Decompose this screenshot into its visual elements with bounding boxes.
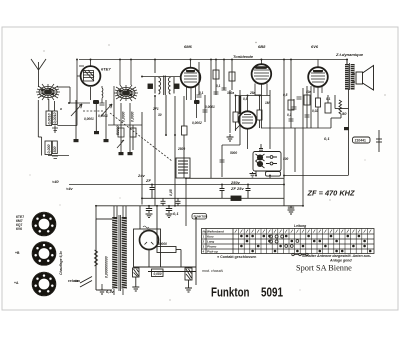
svg-text:6B8: 6B8 <box>258 44 266 49</box>
svg-text:2500: 2500 <box>177 147 185 151</box>
svg-text:ZF1: ZF1 <box>152 107 159 111</box>
svg-text:0,0000: 0,0000 <box>122 112 126 122</box>
svg-text:Z.t.dynamique: Z.t.dynamique <box>335 52 364 57</box>
svg-text:Schalter Antenne dargestellt.: Schalter Antenne dargestellt. Anten aus- <box>302 254 372 258</box>
svg-text:0,1: 0,1 <box>287 113 292 117</box>
svg-text:Sport SA Bienne: Sport SA Bienne <box>296 264 352 273</box>
svg-text:0,050: 0,050 <box>154 272 162 276</box>
svg-text:≈4v: ≈4v <box>66 186 73 191</box>
svg-text:6TE7: 6TE7 <box>101 67 111 72</box>
svg-text:500: 500 <box>283 157 289 161</box>
svg-text:ZF = 470 KHZ: ZF = 470 KHZ <box>307 189 356 198</box>
svg-text:0,1: 0,1 <box>216 84 221 88</box>
svg-text:ZF: ZF <box>145 178 151 183</box>
svg-text:≈40: ≈40 <box>52 179 59 184</box>
svg-text:5091: 5091 <box>261 285 283 300</box>
svg-text:0,0010: 0,0010 <box>47 114 51 125</box>
svg-text:+A: +A <box>14 281 19 285</box>
svg-text:50a: 50a <box>306 90 312 94</box>
svg-text:30: 30 <box>158 113 162 117</box>
svg-text:Wellenband: Wellenband <box>207 230 224 234</box>
svg-text:a: a <box>60 107 62 111</box>
svg-text:Leitung: Leitung <box>294 224 307 228</box>
svg-text:0,5: 0,5 <box>283 93 288 97</box>
svg-text:~: ~ <box>143 229 145 233</box>
svg-text:0,1: 0,1 <box>324 136 330 141</box>
svg-text:● Contakt geschlossen: ● Contakt geschlossen <box>217 255 256 259</box>
svg-text:500: 500 <box>53 147 57 153</box>
svg-text:Tonblende: Tonblende <box>233 54 254 59</box>
svg-text:0,0000: 0,0000 <box>131 112 135 122</box>
svg-text:0,0002: 0,0002 <box>192 121 202 125</box>
svg-text:relais: relais <box>68 278 79 283</box>
svg-text:0,0001: 0,0001 <box>84 117 94 121</box>
svg-text:Funkton: Funkton <box>211 285 250 300</box>
svg-text:30000: 30000 <box>158 242 167 246</box>
svg-text:6V6: 6V6 <box>16 227 22 231</box>
svg-text:Lang: Lang <box>207 240 214 244</box>
svg-text:210441: 210441 <box>355 139 366 143</box>
svg-text:0,1: 0,1 <box>199 91 204 95</box>
svg-text:FUNKTON: FUNKTON <box>194 215 208 219</box>
svg-text:6M6: 6M6 <box>184 44 193 49</box>
svg-text:0,5: 0,5 <box>243 97 248 101</box>
svg-text:250v: 250v <box>230 180 241 185</box>
svg-text:5000: 5000 <box>230 151 237 155</box>
svg-text:0,000: 0,000 <box>47 145 51 154</box>
svg-text:Chauffage 6,3v: Chauffage 6,3v <box>59 250 63 275</box>
svg-text:0,0001: 0,0001 <box>98 114 108 118</box>
svg-text:0,05: 0,05 <box>169 189 173 196</box>
svg-text:0,1: 0,1 <box>173 211 179 216</box>
svg-text:6V6: 6V6 <box>311 44 319 49</box>
svg-text:350a: 350a <box>227 91 234 95</box>
svg-text:mod. chassis: mod. chassis <box>202 269 223 273</box>
svg-text:25a: 25a <box>249 91 256 95</box>
svg-text:50: 50 <box>342 111 347 116</box>
svg-text:0,0001: 0,0001 <box>205 105 215 109</box>
svg-text:Phono: Phono <box>207 245 216 249</box>
svg-text:50000: 50000 <box>116 125 120 135</box>
svg-text:ZF 25v: ZF 25v <box>230 186 244 191</box>
svg-text:Anlage gend: Anlage gend <box>329 259 352 263</box>
svg-text:0,1: 0,1 <box>326 97 331 101</box>
svg-text:Pick-up: Pick-up <box>207 250 218 254</box>
svg-text:0,0000000000: 0,0000000000 <box>105 256 109 278</box>
svg-text:24v: 24v <box>137 173 145 178</box>
svg-text:Kurz: Kurz <box>207 235 214 239</box>
svg-text:6,3v: 6,3v <box>106 289 115 294</box>
svg-text:0,0010: 0,0010 <box>53 113 57 124</box>
svg-text:1M: 1M <box>265 101 270 105</box>
svg-text:+B: +B <box>15 251 20 255</box>
svg-text:0,02: 0,02 <box>312 109 318 113</box>
